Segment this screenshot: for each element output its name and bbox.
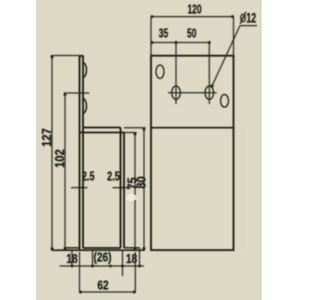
dim 2.5 right line — [113, 187, 132, 189]
svg-text:102: 102 — [52, 149, 67, 168]
web bottom line — [80, 132, 125, 134]
dim 2.5 left line — [71, 187, 88, 189]
leader line for ø12 — [212, 26, 240, 86]
svg-text:127: 127 — [39, 128, 54, 147]
text 102 (rotated) — [52, 149, 67, 168]
hole left (round) — [172, 86, 181, 99]
hole centerline horizontal — [168, 92, 217, 94]
text 80 (rotated) — [134, 176, 149, 189]
dim 62 left extension — [79, 252, 81, 292]
svg-text:62: 62 — [97, 278, 109, 292]
dim 102 top extension / hole centerline (side view) — [64, 92, 89, 94]
svg-text:2.5: 2.5 — [107, 170, 120, 184]
ext at x=72 — [71, 250, 73, 267]
hole centerline vertical right — [208, 43, 210, 105]
dim 62 right extension — [134, 252, 136, 292]
text 18 right — [126, 252, 138, 266]
text 120 — [187, 3, 201, 17]
svg-text:120: 120 — [187, 3, 201, 17]
wall top edge — [79, 55, 84, 57]
plate outline — [151, 56, 234, 250]
ext at x=139.5 — [139, 248, 141, 267]
dim 62 line — [80, 291, 136, 293]
dim 35/50 line — [151, 42, 211, 44]
dim 75 line — [134, 133, 136, 250]
dimple bump lower (side view) — [83, 99, 86, 113]
svg-text:80: 80 — [134, 176, 149, 189]
dim 102 line — [64, 93, 66, 250]
dim 120 right extension — [233, 17, 235, 56]
leader underline — [240, 25, 257, 27]
scan artifact white blob — [126, 194, 137, 201]
text 35 — [159, 27, 168, 41]
right wall inner line — [120, 128, 122, 249]
dim 120 left extension (merges into plate edge) — [150, 17, 152, 56]
ext at x=92.5 — [92, 250, 94, 267]
left foot top edge — [65, 247, 80, 249]
dim 18/(26)/18 line — [60, 265, 145, 267]
dim 127 top extension — [51, 55, 83, 57]
text 18 left — [66, 252, 78, 266]
terminator dots — [51, 56, 54, 59]
text 75 (rotated) — [124, 177, 139, 190]
wall left inner line — [82, 56, 84, 248]
svg-text:35: 35 — [159, 27, 168, 41]
svg-text:2.5: 2.5 — [82, 170, 95, 184]
ext at x=122.5 — [122, 250, 124, 276]
bottom outer edge (merged with extension lines both sides) — [51, 249, 144, 251]
text 12 of ø12 — [246, 12, 256, 26]
dimple ellipse upper-left — [156, 65, 164, 78]
right foot top edge — [124, 247, 140, 249]
svg-text:12: 12 — [246, 12, 256, 26]
wall left outer line — [79, 56, 81, 250]
svg-text:18: 18 — [66, 252, 78, 266]
text (26) — [93, 250, 111, 264]
text 127 (rotated) — [39, 128, 54, 147]
right wall outer line — [123, 133, 125, 249]
hole right (round) — [205, 86, 214, 99]
svg-text:50: 50 — [187, 27, 196, 41]
text 2.5 right — [107, 170, 120, 184]
dimple bump upper (side view) — [83, 63, 87, 77]
dim 120 line — [151, 16, 234, 18]
channel bottom inner line — [83, 247, 121, 249]
dim 80 line — [143, 128, 145, 250]
text 2.5 left — [82, 170, 95, 184]
web edge line across plate — [151, 127, 234, 129]
svg-text:(26): (26) — [93, 250, 111, 264]
text 62 — [97, 278, 109, 292]
dim 127 line — [51, 56, 53, 251]
faint fold line right of front view — [242, 128, 244, 250]
svg-text:18: 18 — [126, 252, 138, 266]
dim 75 extension (web bottom) — [124, 132, 137, 134]
text 50 — [187, 27, 196, 41]
dimple ellipse lower-right — [221, 95, 229, 108]
hole centerline vertical left — [175, 43, 177, 105]
dim 80 extension (web top) — [124, 127, 146, 129]
web top line — [83, 127, 121, 129]
diameter symbol of ø12 — [240, 12, 246, 24]
